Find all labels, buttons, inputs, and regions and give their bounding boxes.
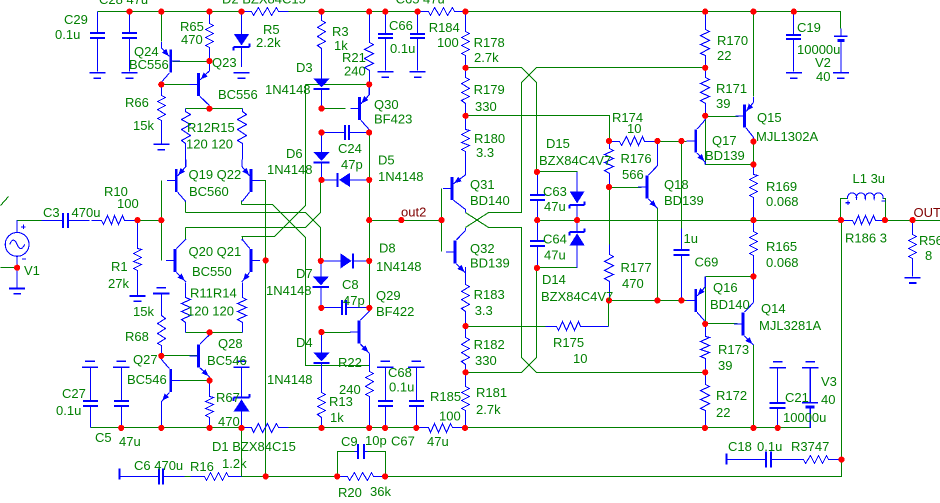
svg-text:BC546: BC546 xyxy=(207,353,247,368)
svg-text:L1 3u: L1 3u xyxy=(853,171,886,186)
svg-text:BD139: BD139 xyxy=(664,193,704,208)
capacitor C28 xyxy=(122,12,137,72)
wire input stub xyxy=(1,197,9,206)
svg-text:D3: D3 xyxy=(296,60,313,75)
wire Q22 col to D4 node xyxy=(242,205,370,366)
node Q15 base xyxy=(702,113,708,119)
wire R12 R15 tops xyxy=(186,108,243,110)
svg-text:40: 40 xyxy=(816,69,830,84)
svg-text:1u: 1u xyxy=(684,231,698,246)
transistor Q28 xyxy=(190,332,210,377)
resistor R11 xyxy=(182,283,191,333)
node D7 top xyxy=(318,258,324,264)
node C69 bottom xyxy=(678,297,684,303)
svg-text:D7: D7 xyxy=(296,266,313,281)
svg-text:1N4148: 1N4148 xyxy=(265,82,311,97)
transistor Q19 xyxy=(167,159,186,201)
svg-text:1N4148: 1N4148 xyxy=(267,162,313,177)
node C5 bottom xyxy=(118,425,124,431)
svg-text:Q15: Q15 xyxy=(757,110,782,125)
resistor R6 xyxy=(242,424,289,433)
node C19 top xyxy=(791,9,797,15)
wire Q19 col to D7 node xyxy=(186,213,321,261)
transistor Q29 xyxy=(350,308,370,366)
svg-text:0.068: 0.068 xyxy=(766,255,799,270)
svg-text:120 120: 120 120 xyxy=(186,137,233,152)
svg-text:39: 39 xyxy=(716,96,730,111)
svg-text:R68: R68 xyxy=(125,329,149,344)
svg-text:10000u: 10000u xyxy=(783,410,826,425)
svg-text:C19: C19 xyxy=(797,20,821,35)
wire R178 to C63 xyxy=(466,68,537,172)
svg-text:15k: 15k xyxy=(133,304,154,319)
wire C69 top lead xyxy=(681,142,683,229)
svg-text:C29: C29 xyxy=(64,12,88,27)
svg-text:V3: V3 xyxy=(821,374,837,389)
node C24 right xyxy=(366,129,372,135)
wire Q15 base node down xyxy=(706,116,754,165)
node zobel xyxy=(838,457,844,463)
svg-text:R179: R179 xyxy=(474,82,505,97)
svg-text:R180: R180 xyxy=(474,131,505,146)
wire Q30 base row xyxy=(322,108,346,110)
svg-text:22: 22 xyxy=(716,405,730,420)
wire C9 right post xyxy=(368,452,386,477)
node D2 top xyxy=(238,9,244,15)
node Q28 collector xyxy=(207,329,213,335)
wire Q16 base row xyxy=(609,300,695,302)
svg-text:Q23: Q23 xyxy=(212,55,237,70)
resistor R67 xyxy=(206,377,214,428)
wire feedback left xyxy=(242,476,338,478)
node R181 bottom xyxy=(462,425,468,431)
svg-text:3.3: 3.3 xyxy=(476,145,494,160)
wire bottom rail left xyxy=(91,427,242,429)
ground D2 xyxy=(234,73,250,78)
wire Q28 base row xyxy=(162,355,198,357)
wire Q32 col to R170 xyxy=(466,68,706,228)
svg-text:D5: D5 xyxy=(378,153,395,168)
resistor R10 xyxy=(92,216,138,225)
svg-text:1.2k: 1.2k xyxy=(222,456,247,471)
svg-text:C3: C3 xyxy=(43,205,60,220)
resistor R3 xyxy=(318,12,326,79)
wire Q19/Q20 base column xyxy=(161,181,163,261)
svg-text:MJL1302A: MJL1302A xyxy=(756,129,818,144)
resistor R37 xyxy=(771,456,842,464)
wire D8 to C8 xyxy=(369,261,371,308)
svg-text:D15: D15 xyxy=(546,136,570,151)
transistor Q24 xyxy=(161,42,180,85)
svg-text:C21: C21 xyxy=(785,390,809,405)
wire out2 xyxy=(370,220,442,222)
ground C21 inverted xyxy=(770,362,786,368)
node Q27 base xyxy=(207,377,213,383)
svg-text:10: 10 xyxy=(627,121,641,136)
svg-text:470: 470 xyxy=(622,276,644,291)
wire R183 to R175 xyxy=(466,326,546,328)
ground C28 xyxy=(122,73,138,78)
wire Q18 emitter down xyxy=(657,208,659,301)
svg-text:1k: 1k xyxy=(330,410,344,425)
wire Q31 col to R172 xyxy=(466,213,706,373)
wire Q27 base row xyxy=(173,380,210,382)
resistor R1 xyxy=(134,221,142,296)
capacitor C29 xyxy=(90,12,105,72)
resistor R65 xyxy=(206,12,214,62)
svg-text:C68: C68 xyxy=(388,365,412,380)
ground C66 xyxy=(377,72,393,77)
svg-text:R3747: R3747 xyxy=(791,439,829,454)
node driver bases xyxy=(439,217,445,223)
wire Q29 base row xyxy=(322,332,351,334)
inductor L1 xyxy=(848,193,884,199)
node C69 top xyxy=(678,138,684,144)
svg-text:1N4148: 1N4148 xyxy=(378,169,424,184)
wire R179 to R174 xyxy=(466,116,610,142)
svg-text:R185: R185 xyxy=(430,389,461,404)
resistor R186 xyxy=(841,216,885,225)
resistor R12 xyxy=(182,109,191,160)
diode D15 xyxy=(570,172,585,220)
wire Q22 base down xyxy=(253,181,266,261)
svg-text:0.1u: 0.1u xyxy=(390,41,415,56)
wire Q21 col to D3 node xyxy=(242,85,306,237)
wire bottom rail right xyxy=(466,427,811,429)
svg-text:100: 100 xyxy=(117,196,139,211)
resistor R185 xyxy=(417,424,466,433)
capacitor C5 xyxy=(114,368,129,428)
svg-text:R183: R183 xyxy=(474,287,505,302)
node input xyxy=(158,217,164,223)
svg-text:Q27: Q27 xyxy=(133,352,158,367)
svg-text:22: 22 xyxy=(717,48,731,63)
transistor Q18 xyxy=(638,141,658,208)
capacitor C21 xyxy=(769,368,785,428)
svg-text:OUT: OUT xyxy=(914,205,940,220)
capacitor C27 xyxy=(83,368,98,428)
wire Q16 col column xyxy=(705,277,707,324)
node R22 bottom xyxy=(366,425,372,431)
svg-text:C6 470u: C6 470u xyxy=(134,458,183,473)
svg-text:BC550: BC550 xyxy=(192,264,232,279)
node C6 input post xyxy=(119,469,121,480)
node D6/D5 xyxy=(318,177,324,183)
transistor Q23 xyxy=(190,61,210,109)
battery V2 xyxy=(834,29,847,72)
transistor Q32 xyxy=(446,228,466,273)
node R20 right xyxy=(382,473,388,479)
wire R165 bottom row xyxy=(706,276,754,278)
svg-text:R66: R66 xyxy=(125,95,149,110)
capacitor C18 xyxy=(728,452,804,468)
wire feedback from OUT xyxy=(386,221,842,477)
svg-text:R22: R22 xyxy=(338,355,362,370)
node D15/D14 xyxy=(574,217,580,223)
node C66 top xyxy=(382,9,388,15)
node Q18 base xyxy=(606,184,612,190)
node R56 top xyxy=(910,217,916,223)
capacitor C68 xyxy=(378,368,393,428)
node Q24 emitter rail xyxy=(158,9,164,15)
svg-text:C67: C67 xyxy=(391,434,415,449)
wire C69 bottom stub xyxy=(681,298,683,301)
node R67 bottom xyxy=(207,425,213,431)
svg-text:Q17: Q17 xyxy=(712,133,737,148)
svg-text:36k: 36k xyxy=(370,484,391,499)
node C64 bottom xyxy=(534,265,540,271)
svg-text:R16: R16 xyxy=(190,459,214,474)
diode D6 xyxy=(313,133,329,180)
wire Q15 emitter column xyxy=(753,12,755,97)
transistor Q14 xyxy=(734,276,753,345)
resistor R5 xyxy=(242,8,289,16)
wire R176 to R177 xyxy=(609,188,611,245)
wire Q19 collector xyxy=(185,202,187,213)
node R174 left xyxy=(606,138,612,144)
svg-text:R171: R171 xyxy=(716,81,747,96)
node C24 left xyxy=(318,129,324,135)
source V1 xyxy=(5,220,29,288)
ground C29 xyxy=(89,73,105,78)
svg-text:R181: R181 xyxy=(476,385,507,400)
resistor R56 xyxy=(909,221,917,277)
svg-text:R165: R165 xyxy=(766,239,797,254)
wire OUT row xyxy=(885,220,940,222)
transistor Q31 xyxy=(443,162,466,212)
wire Q20 collector xyxy=(185,228,187,240)
svg-text:D8: D8 xyxy=(379,241,396,256)
svg-text:C9: C9 xyxy=(341,434,358,449)
svg-text:Q31: Q31 xyxy=(470,177,495,192)
svg-text:0.068: 0.068 xyxy=(766,194,799,209)
wire Q14 base row xyxy=(706,323,738,325)
node R177 bottom xyxy=(606,297,612,303)
diode D2 xyxy=(234,12,250,67)
capacitor C24 xyxy=(322,125,370,140)
capacitor C69 xyxy=(674,229,690,298)
svg-text:Q28: Q28 xyxy=(218,336,243,351)
node feedback tap xyxy=(263,473,269,479)
svg-text:470: 470 xyxy=(181,32,203,47)
wire D5 to D8 through out2 xyxy=(369,180,371,261)
node R178/R179 xyxy=(463,65,469,71)
wire input node xyxy=(138,220,162,222)
capacitor C64 xyxy=(530,221,545,268)
node C21 bottom xyxy=(775,425,781,431)
wire Q15 collector to R169 xyxy=(753,142,755,165)
svg-text:R172: R172 xyxy=(716,388,747,403)
svg-text:47u: 47u xyxy=(119,434,141,449)
resistor R172 xyxy=(701,373,710,428)
svg-text:BD139: BD139 xyxy=(705,148,745,163)
svg-text:470u: 470u xyxy=(72,205,101,220)
svg-text:0.1u: 0.1u xyxy=(56,403,81,418)
svg-text:R11R14: R11R14 xyxy=(190,286,237,301)
svg-text:V2: V2 xyxy=(815,55,831,70)
svg-text:47p: 47p xyxy=(341,157,363,172)
diode D4 xyxy=(313,332,329,366)
svg-text:100: 100 xyxy=(439,409,461,424)
resistor R183 xyxy=(462,268,470,327)
node R172/R173 xyxy=(702,369,708,375)
svg-text:100: 100 xyxy=(437,35,459,50)
wire L1 left post xyxy=(841,199,848,221)
node Q27 emitter rail xyxy=(158,425,164,431)
wire Q24 base row xyxy=(173,61,210,63)
resistor R181 xyxy=(462,373,470,428)
node R3 top xyxy=(318,9,324,15)
node V1 minus xyxy=(14,265,20,271)
wire Q14 emitter down xyxy=(753,345,755,428)
wire C6 to R16 xyxy=(185,476,191,478)
node L1 left xyxy=(838,217,844,223)
svg-text:27k: 27k xyxy=(108,276,129,291)
node R183/R182 xyxy=(463,323,469,329)
node C8 left xyxy=(318,305,324,311)
ground C65 xyxy=(410,72,426,77)
svg-text:47u: 47u xyxy=(544,248,566,263)
ground V2 xyxy=(833,73,849,78)
node Q30 base xyxy=(318,105,324,111)
svg-text:330: 330 xyxy=(475,353,497,368)
node C68 bottom xyxy=(382,425,388,431)
svg-text:C18: C18 xyxy=(728,439,752,454)
wire mid node row xyxy=(538,220,841,222)
svg-text:BC546: BC546 xyxy=(127,372,167,387)
node Q14 emitter rail xyxy=(750,425,756,431)
wire bottom rail mid xyxy=(289,427,417,429)
svg-text:47p: 47p xyxy=(343,293,365,308)
capacitor C63 xyxy=(530,172,545,221)
node Q18 emitter xyxy=(654,297,660,303)
svg-text:R169: R169 xyxy=(766,179,797,194)
node R182/R181 xyxy=(463,369,469,375)
node R170/R171 xyxy=(702,65,708,71)
svg-text:47u: 47u xyxy=(544,199,566,214)
svg-text:Q32: Q32 xyxy=(470,241,495,256)
node Q21 base xyxy=(263,257,269,263)
transistor Q15 xyxy=(736,97,754,142)
resistor R66 xyxy=(158,85,166,144)
svg-text:Q16: Q16 xyxy=(713,280,738,295)
transistor Q30 xyxy=(351,84,370,132)
node R21 bottom xyxy=(366,81,372,87)
diode D3 xyxy=(313,48,329,109)
svg-text:Q30: Q30 xyxy=(374,97,399,112)
svg-text:BD140: BD140 xyxy=(470,193,510,208)
node out2 left xyxy=(366,217,372,223)
svg-text:C28 47u: C28 47u xyxy=(99,0,148,7)
svg-text:C64: C64 xyxy=(543,232,567,247)
node L1 right xyxy=(882,217,888,223)
ground R66 xyxy=(153,144,169,149)
svg-text:1N4148: 1N4148 xyxy=(267,372,313,387)
resistor R165 xyxy=(750,221,758,277)
wire Q21 base to feedback xyxy=(265,261,267,477)
svg-text:MJL3281A: MJL3281A xyxy=(759,318,821,333)
transistor Q21 xyxy=(242,239,260,282)
svg-text:BF422: BF422 xyxy=(376,304,414,319)
wire Q20 col to D5 node xyxy=(186,180,321,228)
svg-text:10p: 10p xyxy=(365,433,387,448)
svg-text:R184: R184 xyxy=(429,20,460,35)
svg-text:R186 3: R186 3 xyxy=(845,231,887,246)
svg-text:R1: R1 xyxy=(111,259,128,274)
capacitor C19 xyxy=(786,12,801,72)
svg-text:D1 BZX84C15: D1 BZX84C15 xyxy=(212,439,296,454)
transistor Q16 xyxy=(687,276,706,324)
node R178 top xyxy=(462,9,468,15)
ground D1 inverted xyxy=(233,361,249,367)
node R169/R165 xyxy=(750,217,756,223)
svg-text:120 120: 120 120 xyxy=(187,304,234,319)
svg-text:10: 10 xyxy=(573,351,587,366)
svg-text:R176: R176 xyxy=(621,151,652,166)
svg-text:470: 470 xyxy=(218,414,240,429)
resistor R184 xyxy=(418,8,466,16)
resistor R177 xyxy=(605,245,614,301)
node out2 xyxy=(398,217,404,223)
wire C9 left post xyxy=(338,452,355,477)
wire C64 bottom row xyxy=(538,267,578,269)
wire Q18 base xyxy=(610,187,642,189)
svg-text:C8: C8 xyxy=(342,277,359,292)
svg-text:R3: R3 xyxy=(332,24,349,39)
diode D7 xyxy=(313,261,329,308)
capacitor C67 xyxy=(409,368,424,428)
svg-text:C5: C5 xyxy=(95,430,112,445)
resistor R180 xyxy=(462,116,470,163)
capacitor C9 xyxy=(355,444,368,459)
svg-text:BD140: BD140 xyxy=(710,297,750,312)
svg-text:C66: C66 xyxy=(389,18,413,33)
svg-text:0.1u: 0.1u xyxy=(389,380,414,395)
wire Q24 emitter stub xyxy=(161,12,163,42)
svg-text:D6: D6 xyxy=(286,146,303,161)
resistor R15 xyxy=(238,109,247,160)
resistor R21 xyxy=(365,12,374,85)
node C63/C64 xyxy=(534,217,540,223)
svg-text:2.2k: 2.2k xyxy=(256,35,281,50)
svg-text:2.7k: 2.7k xyxy=(474,50,499,65)
wire R174 to Q17 base xyxy=(658,141,687,143)
svg-text:1N4148: 1N4148 xyxy=(376,259,422,274)
wire D1 node down xyxy=(241,428,243,477)
svg-text:V1: V1 xyxy=(24,263,40,278)
svg-text:8: 8 xyxy=(925,248,932,263)
svg-text:BZX84C4V7: BZX84C4V7 xyxy=(541,289,613,304)
wire top rail mid xyxy=(289,11,418,13)
capacitor C65 xyxy=(410,12,425,71)
ground C19 xyxy=(786,73,802,78)
svg-text:47u: 47u xyxy=(427,434,449,449)
resistor R22 xyxy=(366,366,374,428)
wire Q31/Q32 base column xyxy=(441,189,443,252)
svg-text:C65 47u: C65 47u xyxy=(396,0,445,7)
resistor R179 xyxy=(462,68,470,116)
node Q14 base xyxy=(702,321,708,327)
capacitor C66 xyxy=(378,12,393,71)
svg-text:39: 39 xyxy=(718,358,732,373)
svg-text:R177: R177 xyxy=(621,260,652,275)
svg-text:C69: C69 xyxy=(695,255,719,270)
svg-text:R182: R182 xyxy=(474,337,505,352)
transistor Q20 xyxy=(166,239,186,282)
svg-text:C24: C24 xyxy=(338,141,362,156)
ground C68 inverted xyxy=(377,361,393,367)
ground C27 inverted xyxy=(82,361,98,367)
